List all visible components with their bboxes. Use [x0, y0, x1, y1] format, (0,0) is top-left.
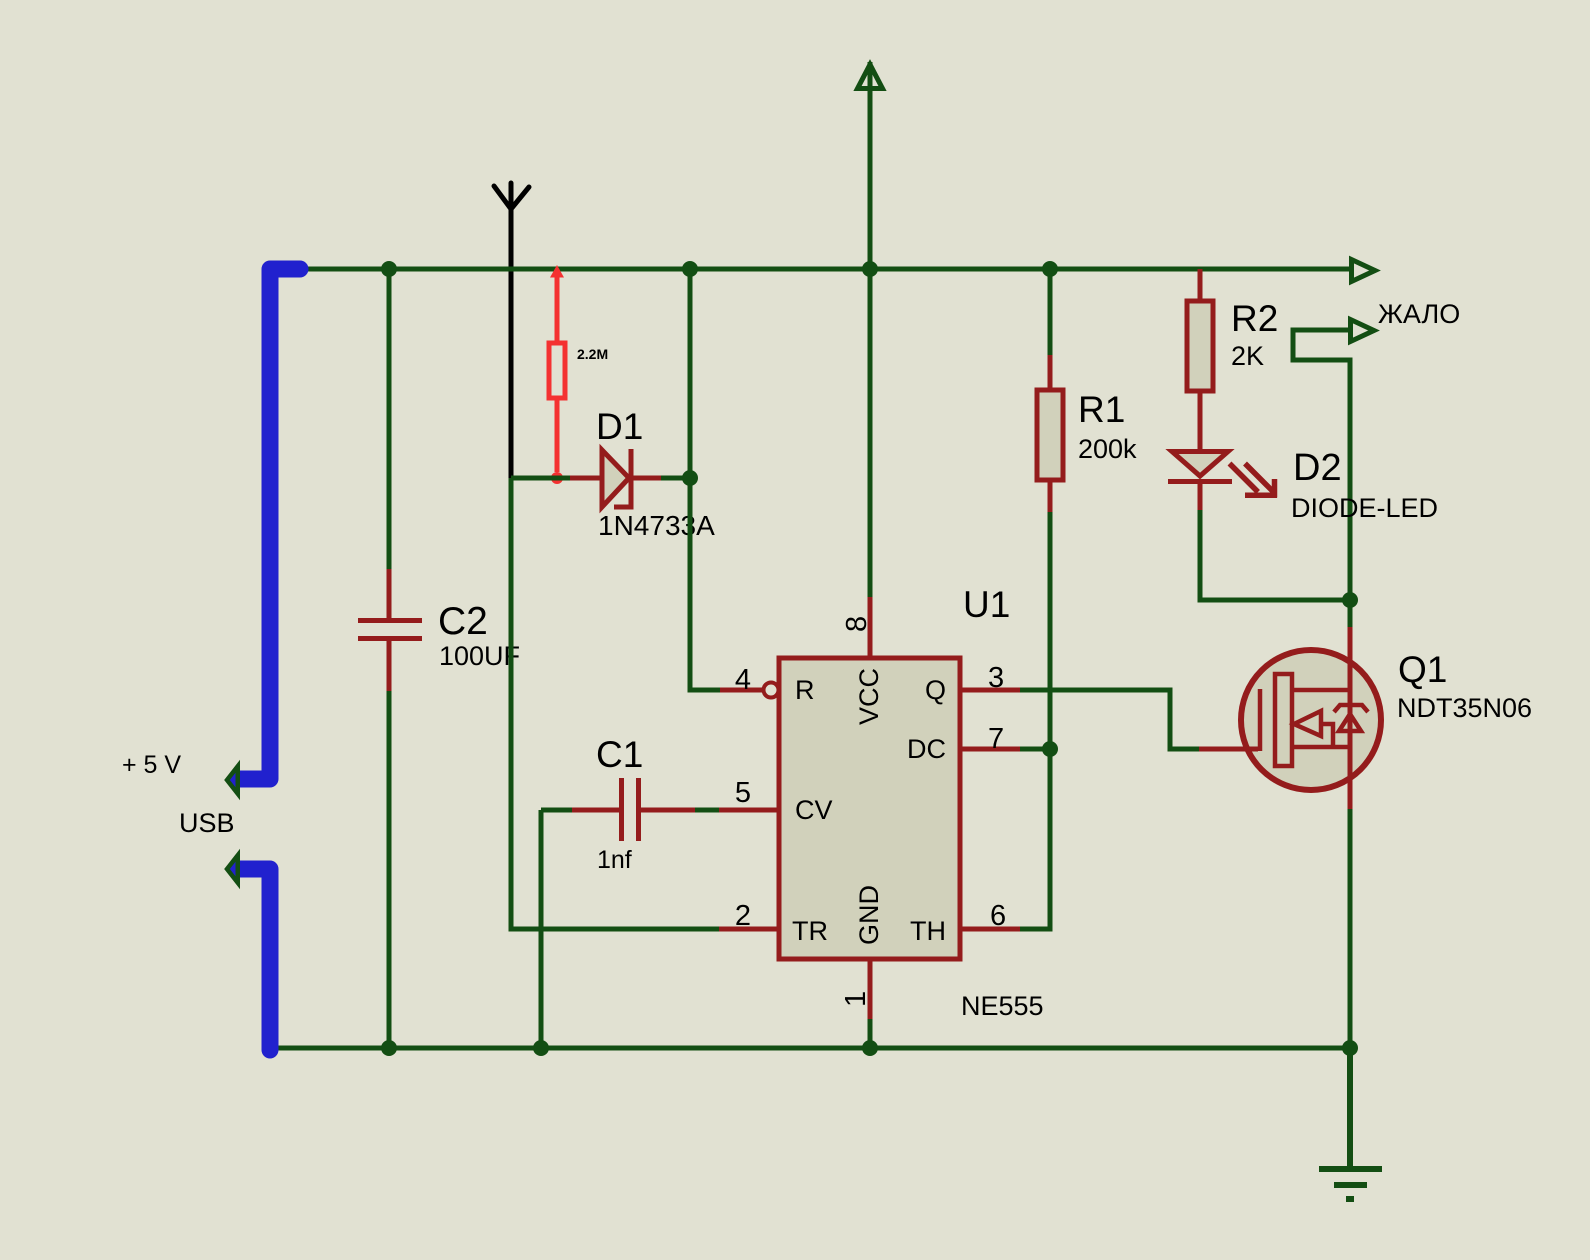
- svg-text:TR: TR: [792, 916, 828, 946]
- svg-text:200k: 200k: [1078, 434, 1137, 464]
- junction at (690,269): [682, 261, 698, 277]
- svg-text:R2: R2: [1231, 298, 1278, 339]
- pin 2 TR stub: [719, 927, 779, 932]
- wire: C1 left lead: [541, 808, 572, 813]
- body diode: [1339, 714, 1361, 731]
- svg-text:NE555: NE555: [961, 991, 1044, 1021]
- output terminal arrow (top right): [1352, 260, 1376, 282]
- junction at (389,269): [381, 261, 397, 277]
- svg-text:7: 7: [988, 723, 1004, 755]
- pin origin dot 2.2M bottom: [551, 472, 563, 484]
- svg-text:DC: DC: [907, 734, 946, 764]
- MOSFET Q1: [1199, 627, 1381, 809]
- svg-text:Q: Q: [925, 675, 946, 705]
- svg-text:6: 6: [990, 900, 1006, 932]
- wire: antenna to D1 anode: [511, 476, 570, 481]
- svg-text:VCC: VCC: [854, 668, 884, 725]
- junction at (389,1048): [381, 1040, 397, 1056]
- channel plate: [1275, 674, 1292, 766]
- wire: D1 cathode to x=690: [661, 476, 690, 481]
- svg-text:4: 4: [735, 664, 751, 696]
- junction at (690,478): [682, 470, 698, 486]
- svg-text:NDT35N06: NDT35N06: [1397, 693, 1532, 723]
- wire: x=690 vertical (rail to pin4): [690, 269, 720, 690]
- junction at (1350,1048): [1342, 1040, 1358, 1056]
- svg-text:5: 5: [735, 777, 751, 809]
- pin 1 GND stub: [868, 959, 873, 1019]
- pin 6 TH stub: [960, 927, 1020, 932]
- svg-text:2: 2: [735, 900, 751, 932]
- LED D2: [1168, 452, 1232, 511]
- wire: source to GND rail: [1348, 809, 1353, 1048]
- junction at (1350,600): [1342, 592, 1358, 608]
- wire: ZHALO net: [1293, 330, 1350, 600]
- svg-text:2K: 2K: [1231, 341, 1264, 371]
- wire: DC junction to TH: [1020, 749, 1050, 929]
- drain connection: [1292, 688, 1349, 693]
- gate lead: [1199, 747, 1258, 752]
- wire: R1 bottom to DC junction: [1048, 512, 1053, 749]
- svg-text:CV: CV: [795, 795, 833, 825]
- antenna: [494, 183, 529, 478]
- terminal arrow ZHALO: [1351, 320, 1375, 342]
- svg-text:+ 5 V: + 5 V: [122, 751, 181, 779]
- capacitor C2: [358, 569, 422, 691]
- wire: rail to pin 8: [868, 269, 873, 597]
- svg-text:R1: R1: [1078, 389, 1125, 430]
- wire: rail to R1 (x=1050): [1048, 269, 1053, 355]
- wire: C1 right to pin5: [695, 808, 719, 813]
- capacitor C1: [572, 778, 695, 841]
- drain/source vertical: [1348, 627, 1353, 809]
- resistor R1: [1037, 355, 1063, 512]
- svg-text:C2: C2: [438, 600, 488, 643]
- wire: GND bottom rail: [270, 1046, 1350, 1051]
- svg-text:3: 3: [988, 662, 1004, 694]
- svg-text:USB: USB: [179, 808, 235, 838]
- svg-text:D2: D2: [1293, 447, 1342, 489]
- wire: Q to gate: [1020, 690, 1199, 749]
- IC U1 NE555 body: [779, 658, 960, 959]
- wire: C2 branch bottom: [387, 691, 392, 1048]
- diode D1 (zener 1N4733A): [570, 449, 661, 507]
- pin origin marker 2.2M top: [550, 265, 564, 278]
- pin 3 Q stub: [960, 688, 1020, 693]
- wire: C1 left plate to GND rail (x=543): [539, 810, 544, 1048]
- power terminal arrow (top): [858, 62, 883, 268]
- wire: antenna branch down to TR (x=511): [511, 478, 719, 929]
- ground symbol: [1319, 1048, 1382, 1199]
- pin 4 R stub with bubble: [720, 688, 762, 693]
- svg-text:C1: C1: [596, 734, 643, 775]
- bulk arrow: [1294, 711, 1321, 736]
- LED D2 light arrows: [1230, 464, 1278, 498]
- gate bar: [1258, 689, 1263, 751]
- junction at (870,1048): [862, 1040, 878, 1056]
- junction at (870,269): [862, 261, 878, 277]
- svg-text:GND: GND: [854, 885, 884, 945]
- svg-text:8: 8: [841, 616, 873, 632]
- junction at (1050,269): [1042, 261, 1058, 277]
- junction at (1050,749): [1042, 741, 1058, 757]
- wire: C2 branch top (x=389): [387, 269, 392, 569]
- terminal arrow USB: [227, 855, 238, 883]
- wire: pin1 to GND rail: [868, 1019, 873, 1048]
- source connection: [1292, 745, 1349, 750]
- svg-text:R: R: [795, 675, 815, 705]
- svg-text:1N4733A: 1N4733A: [598, 510, 715, 541]
- svg-text:1: 1: [840, 991, 872, 1007]
- wire: drain top: [1348, 600, 1353, 627]
- svg-text:U1: U1: [963, 584, 1010, 625]
- junction at (541,1048): [533, 1040, 549, 1056]
- svg-text:D1: D1: [596, 406, 643, 447]
- svg-text:TH: TH: [910, 916, 946, 946]
- svg-text:Q1: Q1: [1398, 649, 1447, 690]
- svg-text:1nf: 1nf: [597, 846, 632, 874]
- USB connector blue wire (GND branch): [237, 869, 270, 1050]
- USB connector blue wire (+5V branch): [237, 269, 300, 779]
- svg-text:DIODE-LED: DIODE-LED: [1291, 493, 1438, 523]
- pin 5 CV stub: [719, 808, 779, 813]
- svg-text:100UF: 100UF: [439, 641, 520, 671]
- resistor 2.2M (highlighted red): [549, 270, 565, 472]
- pin 8 VCC stub: [868, 597, 873, 658]
- terminal arrow +5V: [227, 766, 238, 794]
- svg-text:2.2M: 2.2M: [577, 346, 608, 362]
- pin 7 DC stub: [960, 747, 1020, 752]
- wire: +5V top rail: [298, 267, 1349, 272]
- resistor R2: [1187, 269, 1213, 449]
- wire: D2 cathode to drain junction: [1200, 510, 1350, 600]
- svg-text:ЖАЛО: ЖАЛО: [1378, 299, 1460, 329]
